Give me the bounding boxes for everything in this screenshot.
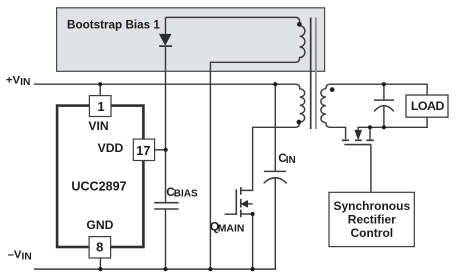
svg-text:17: 17: [136, 143, 150, 158]
svg-text:VIN: VIN: [88, 119, 108, 133]
svg-text:+VIN: +VIN: [6, 74, 30, 88]
svg-text:CIN: CIN: [278, 151, 296, 166]
svg-text:Synchronous: Synchronous: [333, 199, 410, 213]
svg-text:LOAD: LOAD: [411, 99, 445, 113]
svg-text:CBIAS: CBIAS: [166, 185, 198, 200]
svg-text:8: 8: [96, 239, 103, 254]
svg-text:QMAIN: QMAIN: [210, 219, 244, 234]
svg-text:–VIN: –VIN: [8, 249, 32, 263]
svg-text:Control: Control: [350, 226, 393, 240]
svg-text:VDD: VDD: [98, 141, 124, 155]
svg-text:UCC2897: UCC2897: [71, 180, 126, 194]
svg-text:1: 1: [97, 99, 104, 114]
svg-text:Rectifier: Rectifier: [348, 212, 396, 226]
svg-text:GND: GND: [86, 218, 113, 232]
svg-text:Bootstrap Bias 1: Bootstrap Bias 1: [67, 18, 160, 31]
